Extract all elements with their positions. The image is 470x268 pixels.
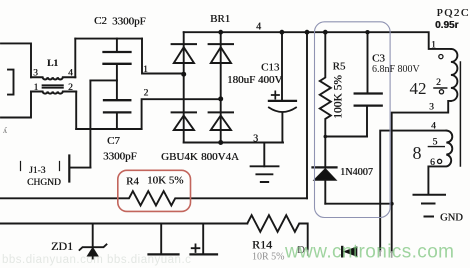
wire: 1N4007 anode to net3 xyxy=(325,203,392,205)
wire: net3 from transformer pin3 down xyxy=(392,101,451,252)
inductor L1 top winding xyxy=(31,77,75,79)
blue highlight box around snubber xyxy=(315,22,391,218)
wire: C2/C7 midpoint jog to earth drop xyxy=(90,79,117,81)
diode D4 bottom-right of bridge xyxy=(209,111,233,113)
svg-text:6.8nF 800V: 6.8nF 800V xyxy=(372,64,421,75)
wire: earth drop vertical xyxy=(89,80,91,167)
svg-text:5: 5 xyxy=(433,138,438,148)
svg-text:100K 5%: 100K 5% xyxy=(333,75,345,119)
wire: clamp node joining R5/C3 bottoms xyxy=(325,136,367,138)
wire: net1 rail and run to bridge xyxy=(142,39,184,74)
diode D3 bottom-left of bridge xyxy=(172,111,196,113)
pin 1 terminal circle xyxy=(439,55,443,59)
svg-text:0.95r: 0.95r xyxy=(435,20,458,31)
red highlight box around R4 xyxy=(118,170,191,211)
svg-text:1: 1 xyxy=(431,41,436,51)
svg-text:L1: L1 xyxy=(47,59,58,69)
svg-text:GBU4K: GBU4K xyxy=(161,151,198,163)
ground symbol GND (secondary) xyxy=(414,195,446,217)
ticks around J1-3 label xyxy=(21,162,60,171)
connector J1 bracket at left edge xyxy=(8,70,14,95)
svg-text:CHGND: CHGND xyxy=(27,178,61,188)
svg-text:6: 6 xyxy=(430,158,435,168)
transformer core line xyxy=(459,62,461,166)
bridge BR1 bottom wire xyxy=(184,142,283,144)
svg-text:ZD1: ZD1 xyxy=(51,239,73,253)
svg-text:3: 3 xyxy=(33,69,38,79)
svg-text:800V4A: 800V4A xyxy=(201,151,239,163)
svg-text:2: 2 xyxy=(436,78,441,88)
wire: choke pin4 riser up to X-cap top wire xyxy=(74,39,76,78)
wire: net4 to winding-8 pin4 and down xyxy=(380,131,446,251)
svg-text:www.cntronics.com: www.cntronics.com xyxy=(284,242,454,263)
svg-text:C3: C3 xyxy=(372,53,385,65)
transformer primary winding 42 xyxy=(451,49,458,101)
svg-text:1: 1 xyxy=(143,65,148,75)
svg-text:42: 42 xyxy=(410,79,427,98)
wire: R4 riser to + rail xyxy=(306,32,308,198)
pin 2 terminal circle xyxy=(439,90,443,94)
svg-text:R14: R14 xyxy=(252,238,272,252)
wire: junction line under C7 xyxy=(76,128,141,130)
diode fragment at bottom edge xyxy=(341,247,343,256)
wire: choke pin2 riser down xyxy=(75,92,77,129)
svg-text:C2: C2 xyxy=(94,15,107,27)
svg-text:C13: C13 xyxy=(261,62,280,74)
svg-text:J1-3: J1-3 xyxy=(29,166,46,176)
resistor R14 xyxy=(247,215,307,250)
inductor L1 core xyxy=(43,85,63,87)
transformer aux winding 8 xyxy=(428,131,452,194)
bridge BR1 right column xyxy=(220,32,222,142)
svg-text:4: 4 xyxy=(256,22,261,33)
resistor R5 xyxy=(320,32,331,136)
wire: X-cap section top wire xyxy=(75,38,142,40)
wire: bottom rail xyxy=(0,223,247,225)
svg-text:10R 5%: 10R 5% xyxy=(252,252,285,263)
svg-text:ʎ: ʎ xyxy=(3,126,7,135)
capacitor C7 xyxy=(116,114,118,130)
wire: main + rail to transformer pin1 xyxy=(221,32,451,49)
svg-text:4: 4 xyxy=(431,122,436,132)
plus sign of bottom electrolytic xyxy=(192,244,200,252)
svg-text:1: 1 xyxy=(34,83,39,93)
diode 1N4007 xyxy=(324,137,326,167)
wire: net2 riser and run to bridge xyxy=(142,99,221,129)
svg-text:GND: GND xyxy=(440,213,463,224)
wire: AC line top to choke pin3 xyxy=(1,43,31,77)
inductor L1 bottom winding xyxy=(31,92,76,94)
chassis ground stub CHGND xyxy=(70,167,90,169)
svg-text:R5: R5 xyxy=(333,61,346,73)
zener diode ZD1 xyxy=(92,224,94,247)
svg-text:3: 3 xyxy=(253,134,258,145)
svg-text:8: 8 xyxy=(413,143,422,163)
svg-text:3300pF: 3300pF xyxy=(103,151,137,163)
capacitor C13 (electrolytic) xyxy=(281,32,283,100)
svg-text:4: 4 xyxy=(68,69,73,79)
svg-text:180uF 400V: 180uF 400V xyxy=(227,74,282,86)
svg-text:BR1: BR1 xyxy=(210,13,230,25)
ground symbol (bridge minus) xyxy=(263,143,265,167)
capacitor C3 xyxy=(366,32,369,136)
diode D1 top-left of bridge xyxy=(172,43,196,45)
pin 2 tap stub xyxy=(434,87,447,89)
pin 5 tap stub xyxy=(428,146,444,148)
svg-text:2: 2 xyxy=(68,83,73,93)
pin 6 terminal circle xyxy=(438,159,442,163)
diode D2 top-right of bridge xyxy=(209,43,233,45)
svg-text:3: 3 xyxy=(429,103,434,113)
bridge BR1 left column xyxy=(183,32,185,142)
svg-text:2: 2 xyxy=(144,89,149,99)
capacitor C2 xyxy=(116,39,118,100)
svg-text:10K 5%: 10K 5% xyxy=(147,175,183,187)
wire: AC line bottom to choke pin1 xyxy=(1,92,31,118)
svg-text:R4: R4 xyxy=(126,176,139,188)
capacitor (bottom, left) xyxy=(160,224,162,254)
capacitor (bottom, right, electrolytic) xyxy=(202,224,204,254)
resistor R4 in line xyxy=(0,191,307,205)
svg-text:1N4007: 1N4007 xyxy=(340,167,373,178)
svg-text:3300pF: 3300pF xyxy=(112,16,146,28)
plus sign of C13 xyxy=(272,91,279,98)
svg-text:bbs.dianyuan.com bbs.dianyuan.: bbs.dianyuan.com bbs.dianyuan.c xyxy=(2,254,191,266)
svg-text:PQ2C: PQ2C xyxy=(437,7,470,19)
bridge BR1 top wire xyxy=(184,31,221,33)
svg-text:C7: C7 xyxy=(107,135,120,147)
